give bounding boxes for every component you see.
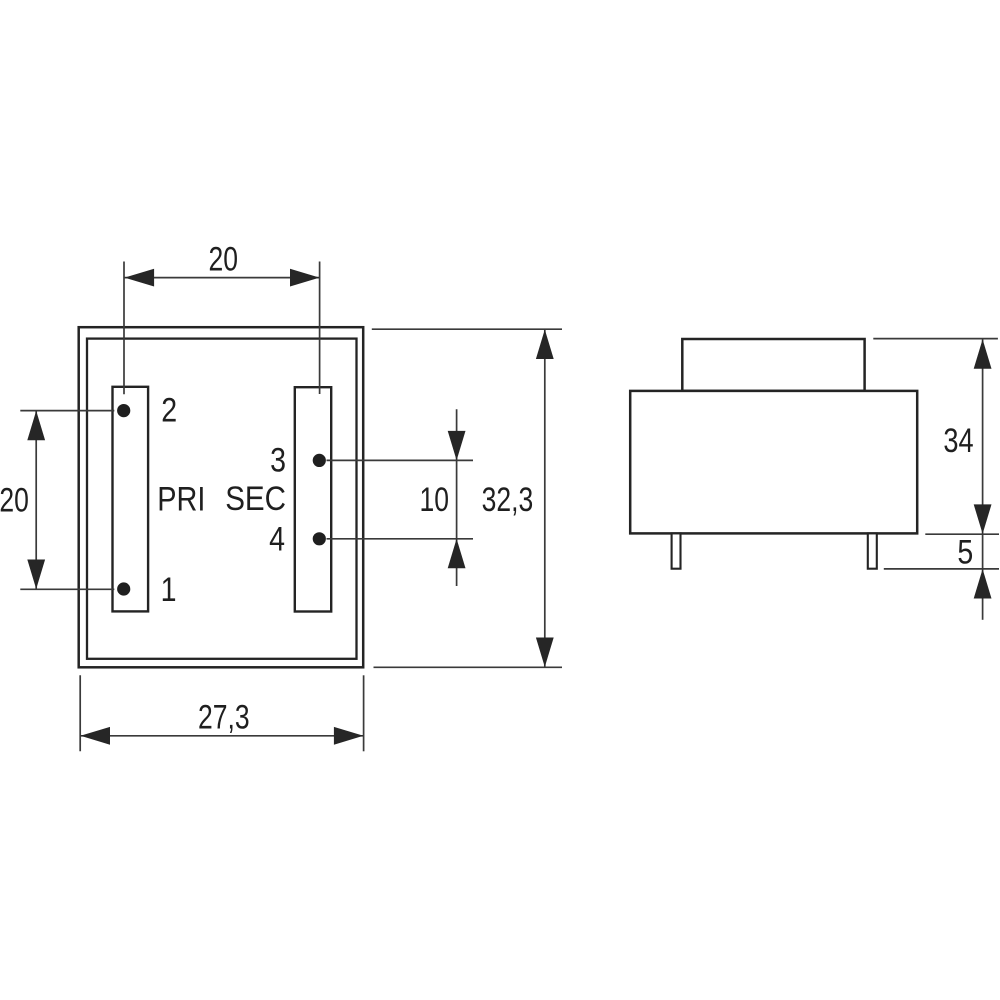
dimension 32,3 (height): top extension line bbox=[372, 328, 562, 330]
dimension 32,3: bottom extension line bbox=[374, 666, 563, 668]
secondary pin slot (right) bbox=[295, 387, 331, 611]
pin 2 pad bbox=[117, 404, 130, 417]
svg-text:3: 3 bbox=[270, 441, 286, 479]
svg-text:10: 10 bbox=[420, 481, 450, 519]
dimension 32,3: bottom arrowhead bbox=[536, 638, 554, 668]
dimension 20 (top): right extension line bbox=[319, 262, 321, 395]
primary pin slot (left) bbox=[113, 387, 149, 612]
dimension 20 (top): right arrowhead bbox=[290, 269, 320, 287]
dimension 5 (pin length): pin-end extension line bbox=[884, 568, 999, 570]
dimension 10: vertical dimension line bbox=[456, 409, 458, 586]
svg-text:5: 5 bbox=[957, 533, 973, 571]
dimension 32,3: dimension line bbox=[544, 330, 546, 668]
dimension 20 (left): dimension line bbox=[35, 411, 37, 589]
svg-text:27,3: 27,3 bbox=[198, 698, 250, 736]
dimension 20 (left, pin pitch): top extension line bbox=[20, 410, 114, 412]
dimension 10: upper arrowhead (pointing down) bbox=[448, 431, 466, 461]
pin 4 pad bbox=[313, 532, 326, 545]
transformer top view: outer case outline bbox=[79, 327, 364, 667]
dimension 34 (body height): top extension line bbox=[873, 338, 998, 340]
pin 1 pad bbox=[117, 582, 130, 595]
dimension 34: top arrowhead bbox=[974, 339, 992, 369]
svg-text:20: 20 bbox=[0, 481, 29, 519]
pin 4 leader line bbox=[327, 538, 474, 540]
svg-text:34: 34 bbox=[943, 421, 973, 460]
dimension 20 (top, pin spacing): left extension line bbox=[123, 262, 125, 395]
dimension 27,3: right arrowhead bbox=[334, 727, 364, 745]
dimension 27,3: left arrowhead bbox=[81, 727, 111, 745]
dimension 34: bottom extension line (body base) bbox=[925, 533, 999, 535]
dimension 20 (left): bottom arrowhead bbox=[27, 560, 45, 590]
svg-text:20: 20 bbox=[208, 240, 238, 278]
svg-text:4: 4 bbox=[269, 520, 285, 558]
dimension 27,3: right extension line bbox=[363, 675, 365, 751]
dimension 10: lower arrowhead (pointing up) bbox=[448, 539, 466, 569]
svg-text:SEC: SEC bbox=[225, 479, 286, 517]
dimension 32,3: top arrowhead bbox=[536, 330, 554, 360]
side view: core stack (top block) bbox=[682, 339, 864, 391]
pin 3 leader line bbox=[327, 459, 474, 461]
dimension 20 (top): dimension line bbox=[125, 277, 320, 279]
dimension 5: lower arrowhead (pointing up) with tail bbox=[982, 569, 984, 620]
dimension 34: bottom arrowhead (pointing down) bbox=[974, 504, 992, 534]
dimension 5: dimension line segment bbox=[982, 534, 984, 569]
svg-text:2: 2 bbox=[161, 391, 177, 429]
svg-text:1: 1 bbox=[161, 570, 177, 608]
side view: left pin bbox=[672, 533, 681, 568]
side view: right pin bbox=[868, 533, 877, 568]
dimension 34: dimension line bbox=[982, 339, 984, 534]
svg-text:PRI: PRI bbox=[157, 479, 205, 518]
pin 3 pad bbox=[313, 454, 326, 467]
dimension 20 (left): bottom extension line bbox=[20, 588, 114, 590]
dimension 27,3 (width): left extension line bbox=[79, 675, 81, 751]
svg-text:32,3: 32,3 bbox=[482, 481, 534, 519]
dimension 27,3: dimension line bbox=[81, 735, 364, 737]
dimension 20 (top): left arrowhead bbox=[125, 269, 155, 287]
transformer top view: inner case outline bbox=[87, 339, 357, 659]
side view: bobbin body bbox=[630, 391, 917, 534]
dimension 20 (left): top arrowhead bbox=[27, 411, 45, 441]
